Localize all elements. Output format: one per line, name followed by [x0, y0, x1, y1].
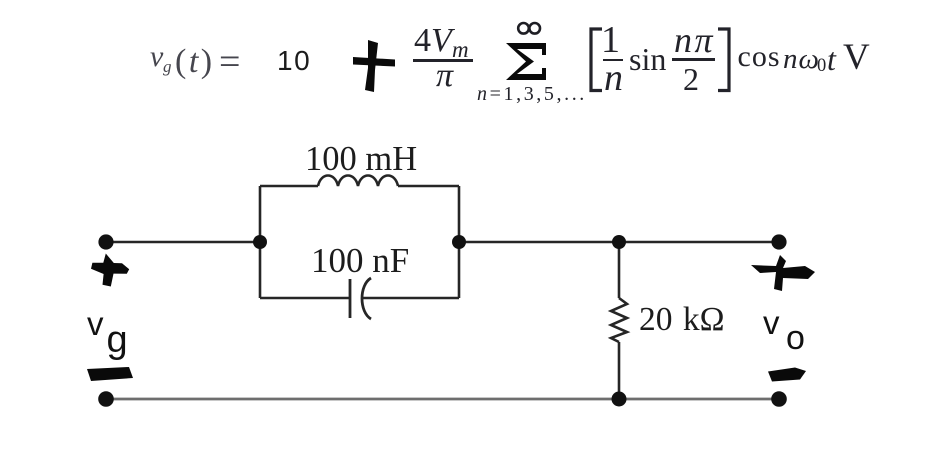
- svg-text:v: v: [87, 305, 104, 342]
- wire: bottom rail: [106, 398, 779, 401]
- wire: output top rail: [459, 241, 779, 244]
- wire: bottom branch to capacitor: [260, 297, 350, 300]
- eq right bracket: [718, 29, 729, 91]
- node: LC right junction dot: [452, 235, 466, 249]
- wire: LC right vertical: [458, 186, 461, 298]
- eq sin: [629, 43, 666, 75]
- node: input - terminal dot: [98, 391, 114, 407]
- node: output - terminal dot: [771, 391, 787, 407]
- node: resistor bottom junction dot: [612, 392, 627, 407]
- eq big sigma: [506, 43, 546, 80]
- eq left bracket: [591, 29, 602, 91]
- inductor L 100 mH: [318, 176, 398, 187]
- eq term 10: [277, 47, 311, 75]
- eq bracket fraction 1/n: [601, 21, 620, 59]
- polarity + at input: [91, 254, 129, 287]
- polarity - at output: [768, 368, 806, 382]
- svg-text:v: v: [763, 304, 780, 341]
- wire: LC left vertical: [259, 186, 262, 298]
- svg-text:g: g: [107, 319, 128, 361]
- eq infinity symbol: [518, 23, 529, 34]
- node: LC left junction dot: [253, 235, 267, 249]
- wire: top branch segments around inductor: [260, 185, 459, 188]
- svg-text:100 nF: 100 nF: [311, 241, 409, 280]
- eq n omega0 t: [783, 45, 820, 74]
- eq fraction 4Vm/pi: [414, 24, 452, 58]
- node: output + terminal dot: [771, 234, 786, 249]
- eq plus sign (bold hand-drawn): [365, 40, 378, 92]
- capacitor C 100 nF left plate: [349, 279, 352, 318]
- capacitor C 100 nF right curved plate: [362, 278, 371, 319]
- svg-text:20 kΩ: 20 kΩ: [639, 301, 725, 338]
- eq fraction n.pi/2: [674, 22, 715, 58]
- resistor R 20 kOhm zigzag: [611, 298, 627, 342]
- eq V unit: [843, 39, 870, 76]
- svg-text:o: o: [786, 319, 805, 357]
- eq cos: [738, 42, 781, 72]
- eq sum limits n=1,3,5,...: [477, 84, 587, 104]
- eq term vg: [150, 42, 163, 72]
- polarity - at input: [87, 367, 133, 381]
- wire: resistor top lead: [618, 242, 621, 298]
- wire: input top rail: [106, 241, 260, 244]
- node: input + terminal dot: [98, 234, 113, 249]
- polarity + at output: [751, 255, 815, 291]
- node: resistor top junction dot: [612, 235, 626, 249]
- wire: resistor bottom lead: [618, 342, 621, 399]
- svg-text:100 mH: 100 mH: [305, 140, 417, 178]
- wire: capacitor to right vertical: [363, 297, 460, 300]
